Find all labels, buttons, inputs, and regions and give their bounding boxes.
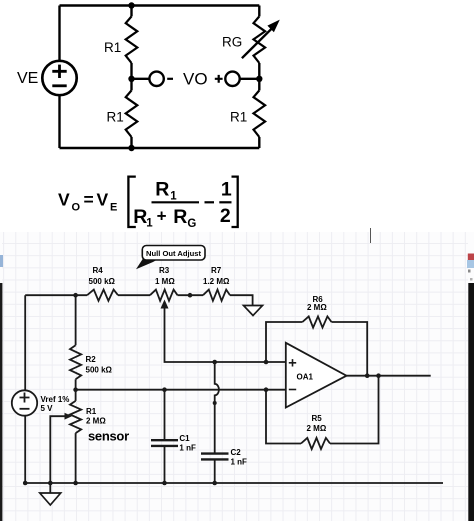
source Vref circle [12,390,37,415]
svg-text:VE: VE [17,70,38,87]
potentiometer R3 wiper arrow [161,300,169,309]
right blue box [467,260,474,268]
svg-text:R3: R3 [159,266,170,275]
resistor R1 top middle [126,16,138,63]
svg-text:C1: C1 [179,434,190,443]
capacitor C2 [201,454,229,460]
formula fraction bar 1 [152,201,200,203]
wire node to left terminal [132,78,150,80]
resistor R7 [203,290,230,301]
svg-text:R1: R1 [230,110,247,125]
wire R4 to R3 [118,294,150,296]
wire output [347,375,431,377]
source VE circle [42,61,76,95]
wire Vref to bus [24,416,26,483]
svg-text:500 kΩ: 500 kΩ [89,277,116,286]
node top middle [128,2,134,8]
left black bar [0,283,2,521]
ground bottom [40,493,61,505]
wire R2 branch top [75,295,77,345]
svg-text:R2: R2 [86,355,97,364]
right gray mark 2 [470,278,473,281]
svg-text:R1: R1 [107,110,124,125]
svg-text:C2: C2 [231,448,242,457]
node top rail R2 [73,293,78,298]
svg-text:=: = [84,190,94,210]
resistor R3 [150,290,178,301]
resistor R4 [87,290,118,301]
svg-text:E: E [110,201,117,213]
wire right top stub [258,6,260,17]
op-amp OA1 [286,343,347,408]
formula minus [205,201,215,203]
wire node to bottom resistor [130,79,132,91]
resistor R2 [70,345,81,379]
wire right terminal to right rail [240,78,260,80]
svg-text:RG: RG [222,35,242,50]
svg-text:sensor: sensor [88,429,129,444]
wire bottom bus [25,482,443,484]
terminal circle minus [149,72,163,86]
capacitor C1 [151,440,178,446]
node R3-R7 [188,293,193,298]
wire C2 branch upper with hop [215,362,219,453]
svg-text:2 MΩ: 2 MΩ [307,424,327,433]
resistor R5 [301,438,330,449]
schematic background [0,232,474,521]
wire R7 to ground corner [230,295,253,305]
component labels [41,266,328,467]
right black bar [468,283,474,521]
node bottom middle [128,145,134,151]
node plus wire R6 [264,360,269,365]
right gray mark 1 [468,270,471,273]
wire R5 left vertical [266,390,301,444]
node minus wire C1 [162,387,167,392]
svg-text:500 kΩ: 500 kΩ [86,365,113,374]
wire C1 branch [164,390,166,483]
left blue box [0,255,3,267]
svg-text:R1: R1 [104,40,121,55]
node plus wire C2 [212,360,217,365]
wire R6 right vertical [332,322,368,376]
minus sign [167,78,173,80]
svg-text:1: 1 [221,179,232,201]
wire middle to node [130,63,132,79]
node bus C1 [162,481,167,486]
wire minus net [76,389,286,391]
wire C2 to bus [214,461,216,484]
resistor R1 bottom middle [126,90,138,137]
svg-text:R: R [133,206,147,228]
cursor line artifact [370,228,372,243]
svg-text:Null Out Adjust: Null Out Adjust [146,249,201,258]
terminal circle plus [225,72,239,86]
svg-text:1: 1 [170,191,177,203]
svg-text:Vref 1%: Vref 1% [41,395,70,404]
right red box [468,254,474,261]
wire left rail down to Vref [24,295,26,390]
node bus Vref [23,481,28,486]
svg-text:R7: R7 [211,266,222,275]
svg-text:1: 1 [146,218,153,230]
svg-text:1 nF: 1 nF [179,444,196,453]
svg-text:+: + [157,207,167,226]
svg-text:V: V [97,190,109,210]
node C2 pin [213,401,217,405]
node minus wire R2R1 [73,387,78,392]
svg-text:R: R [155,178,169,200]
node bus ground [48,481,53,486]
svg-text:G: G [187,218,196,230]
formula fraction bar 2 [219,201,231,203]
svg-text:OA1: OA1 [297,373,314,382]
svg-text:V: V [58,190,70,210]
wire right middle [258,63,260,90]
callout Null Out Adjust [136,246,205,270]
svg-text:1 MΩ: 1 MΩ [155,277,175,286]
node bus R1 [73,481,78,486]
resistor RG zigzag [254,16,266,63]
svg-text:2 MΩ: 2 MΩ [86,417,106,426]
ground after R7 [244,306,263,316]
wire R5 right vertical [330,376,379,444]
svg-text:R4: R4 [93,266,104,275]
wire ground stem bottom [49,483,51,493]
svg-text:R1: R1 [86,407,97,416]
svg-text:5 V: 5 V [41,404,54,413]
svg-text:2: 2 [220,205,231,227]
plus sign [215,75,223,83]
formula left bracket [128,177,135,227]
resistor R1 sensor [70,401,81,433]
arrow RG variable [242,20,280,59]
wire plus net [165,302,286,363]
wire R6 left vertical [266,322,302,362]
node VO+ [256,76,262,82]
wire top rail [60,4,260,6]
resistor R1 bottom right [254,90,266,137]
resistor R6 [302,316,331,327]
svg-text:R5: R5 [312,414,323,423]
node VO- [128,76,134,82]
wire top rail left [25,294,87,296]
svg-text:1.2 MΩ: 1.2 MΩ [203,277,230,286]
node output R5 [376,373,381,378]
wire R1 to bus [75,433,77,483]
wire bottom rail [60,147,260,149]
svg-text:R: R [173,206,187,228]
wire left rail lower [58,95,60,148]
sensor R1 wiper arrow [65,413,72,420]
wire middle top stub [130,6,132,17]
svg-text:VO: VO [183,70,208,89]
wire R2 to node [75,379,77,401]
svg-text:1 nF: 1 nF [231,458,248,467]
node output R6 [365,373,370,378]
wire left rail upper [58,6,60,61]
wire right bottom stub [258,137,260,148]
wire sensor wiper [50,416,66,483]
svg-text:2 MΩ: 2 MΩ [307,303,327,312]
node minus wire R5 [264,387,269,392]
node bus C2 [212,481,217,486]
formula right bracket [232,177,238,227]
svg-text:O: O [72,201,81,213]
wire R3 to R7 [178,294,204,296]
wire middle bottom stub [130,137,132,148]
